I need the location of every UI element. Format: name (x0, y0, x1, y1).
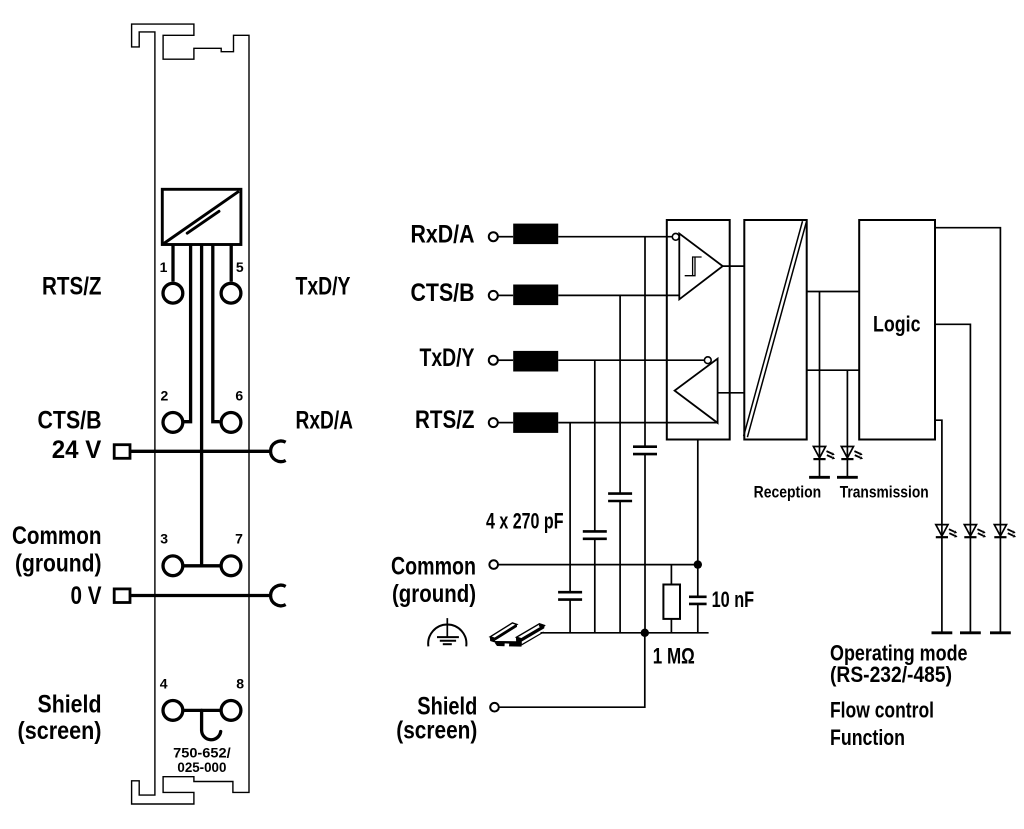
svg-text:4 x 270 pF: 4 x 270 pF (486, 509, 564, 534)
svg-text:RTS/Z: RTS/Z (42, 273, 102, 301)
svg-text:7: 7 (235, 531, 243, 547)
svg-text:(ground): (ground) (392, 580, 476, 608)
svg-text:Logic: Logic (873, 312, 921, 337)
svg-text:RTS/Z: RTS/Z (415, 406, 475, 434)
svg-text:Flow control: Flow control (830, 698, 934, 723)
svg-text:24 V: 24 V (52, 436, 102, 464)
svg-text:6: 6 (235, 387, 243, 403)
svg-text:(screen): (screen) (396, 717, 477, 745)
svg-text:(ground): (ground) (15, 550, 102, 578)
svg-text:3: 3 (160, 531, 168, 547)
svg-text:025-000: 025-000 (177, 759, 226, 775)
svg-text:RxD/A: RxD/A (411, 221, 475, 249)
svg-text:5: 5 (236, 259, 244, 275)
svg-text:2: 2 (161, 387, 169, 403)
svg-text:8: 8 (236, 675, 244, 691)
svg-text:TxD/Y: TxD/Y (420, 344, 475, 372)
svg-text:CTS/B: CTS/B (411, 279, 475, 307)
svg-text:Common: Common (12, 522, 102, 550)
svg-text:Reception: Reception (754, 483, 822, 502)
svg-text:0 V: 0 V (71, 582, 102, 610)
svg-text:RxD/A: RxD/A (296, 407, 354, 435)
svg-text:Shield: Shield (38, 691, 102, 719)
svg-text:1 MΩ: 1 MΩ (653, 643, 695, 668)
svg-text:Transmission: Transmission (840, 483, 929, 502)
svg-text:10 nF: 10 nF (712, 587, 755, 612)
svg-text:(screen): (screen) (18, 717, 102, 745)
svg-text:(RS-232/-485): (RS-232/-485) (830, 662, 952, 687)
svg-text:1: 1 (160, 259, 168, 275)
svg-text:Common: Common (391, 552, 476, 580)
svg-text:4: 4 (160, 675, 168, 691)
svg-text:CTS/B: CTS/B (38, 406, 102, 434)
svg-text:TxD/Y: TxD/Y (296, 273, 351, 301)
svg-text:Function: Function (830, 725, 905, 750)
